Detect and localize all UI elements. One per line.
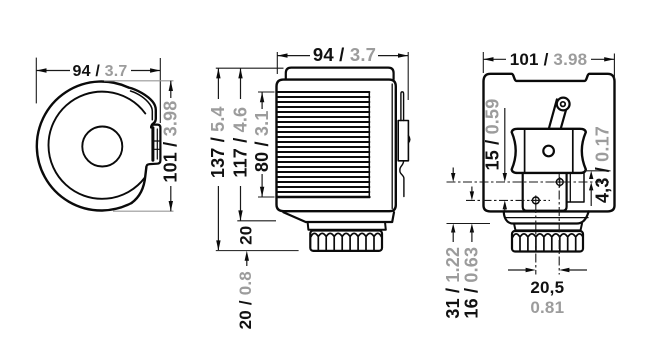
dimension 101/3.98 (left view height) [104, 81, 174, 211]
extension line right [159, 58, 161, 123]
label 94 / 3.7 (left view) [70, 63, 131, 79]
svg-text:80 / 3.1: 80 / 3.1 [252, 110, 272, 172]
clamp inner verticals [524, 129, 526, 173]
ribs bottom thick line [278, 196, 370, 199]
lever head circle [557, 98, 570, 111]
knurled nut [512, 231, 583, 252]
svg-text:94 / 3.7: 94 / 3.7 [313, 44, 376, 65]
svg-text:31 / 1.22: 31 / 1.22 [443, 247, 463, 319]
arrowheads 101 left view [169, 81, 173, 91]
svg-text:20,5: 20,5 [530, 278, 564, 297]
dimension line [170, 81, 172, 211]
base skirt [283, 212, 394, 222]
top extension line shared by 137/117 [216, 67, 284, 69]
knob outer outline arc [37, 81, 132, 210]
knob lower right profile [132, 167, 147, 203]
base apron [504, 211, 589, 223]
arrowheads 94 left view [36, 68, 46, 72]
centerline through screw 1 [447, 181, 611, 183]
vertical centerline screw 1 [558, 174, 560, 275]
clamp bowtie [512, 129, 586, 173]
screw 2 [531, 195, 541, 205]
pipe clip lower wire [400, 161, 404, 197]
knurl separators [318, 238, 374, 250]
mounting plate [523, 173, 567, 211]
svg-text:15 / 0.59: 15 / 0.59 [483, 99, 503, 171]
extension line at knurl bottom [216, 250, 299, 252]
dimension 101/3.98 (right view) [483, 52, 614, 79]
main body [277, 80, 396, 212]
dimension line [36, 70, 160, 72]
dimension 4,3/0.17 [589, 171, 593, 179]
ribs right border [368, 92, 370, 197]
svg-text:117 / 4.6: 117 / 4.6 [230, 107, 250, 178]
base collar [308, 222, 386, 230]
svg-text:101 / 3.98: 101 / 3.98 [510, 50, 588, 69]
dimension 137/5.4 [217, 68, 219, 250]
knob inner rim arc [49, 92, 146, 199]
lever arm [549, 99, 557, 128]
pipe clip bracket [398, 121, 408, 161]
dimension 117/4.6 [240, 68, 242, 220]
knurl separators [520, 238, 576, 250]
base collar [514, 224, 582, 231]
dimension 20/0.8 arrow [246, 258, 248, 266]
pipe clip wire loop [401, 92, 404, 121]
extension line right [407, 52, 409, 100]
svg-text:94 / 3.7: 94 / 3.7 [73, 63, 128, 80]
dimension 15/0.59 [504, 108, 506, 174]
dimension 94/3.7 (middle view) [277, 52, 408, 100]
label 101 / 3.98 (left view, rotated) [163, 98, 180, 186]
knob center circle [82, 127, 122, 167]
centerline through screw 2 [466, 199, 550, 201]
base apron step line [506, 217, 589, 219]
arrowheads 94 middle [277, 53, 287, 57]
svg-text:20 / 0.8: 20 / 0.8 [236, 271, 255, 329]
extension line at skirt bottom [237, 220, 276, 222]
rear bracket [567, 173, 584, 202]
knob right chamfer and flat [129, 88, 156, 128]
knurl scallops [311, 233, 381, 236]
tab interior thin line [156, 129, 158, 159]
svg-text:137 / 5.4: 137 / 5.4 [208, 106, 228, 178]
tab interior bar [151, 128, 154, 161]
extension line left [276, 52, 278, 74]
lever head hole [561, 102, 566, 107]
extension line clamp bottom right [584, 170, 611, 172]
dimension 20,5/0.81 [508, 269, 527, 271]
pipe clip bracket bump [408, 136, 409, 144]
dimension line [277, 55, 408, 57]
dimension 16/0.63 [471, 187, 473, 193]
ribs (horizontal fins) [278, 92, 370, 192]
svg-text:101 / 3.98: 101 / 3.98 [161, 101, 181, 183]
dimension 31/1.22 [452, 168, 454, 175]
knob rim chamfer inner line [131, 91, 153, 120]
lid [286, 68, 394, 80]
gray extension line bottom [113, 210, 174, 212]
knurled nut [310, 231, 382, 251]
datum line left [447, 223, 491, 225]
svg-text:0.81: 0.81 [530, 298, 564, 317]
dimension 80/3.1 [258, 91, 275, 93]
gray extension line top [104, 80, 174, 82]
body shell [484, 74, 615, 212]
dimension 94/3.7 (left view width) [36, 58, 160, 123]
knurl scallops [513, 234, 583, 237]
extension line left [35, 58, 37, 104]
vertical centerline screw 2 [535, 204, 537, 275]
rear bracket inner edge [569, 173, 571, 202]
svg-text:20: 20 [236, 226, 255, 245]
svg-text:16 / 0.63: 16 / 0.63 [462, 247, 482, 319]
body right wall inner line [391, 84, 393, 209]
svg-text:4,3 / 0.17: 4,3 / 0.17 [593, 126, 613, 203]
tab interior dividers [155, 140, 160, 142]
screw 1 [555, 177, 565, 187]
label 94 / 3.7 (middle view) [310, 47, 378, 64]
clamp center hole [543, 146, 554, 157]
clip tab [146, 125, 160, 167]
